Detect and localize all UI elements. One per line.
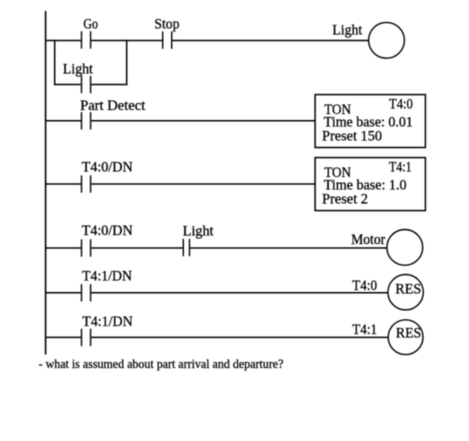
contact T4:0/DN (rung 3) [82,160,134,193]
left power rail [45,11,47,355]
svg-text:Light: Light [332,23,362,39]
svg-text:Light: Light [183,223,214,239]
svg-text:Preset 150: Preset 150 [322,129,382,145]
svg-text:T4:0/DN: T4:0/DN [82,223,134,239]
svg-text:T4:1/DN: T4:1/DN [82,314,133,330]
svg-text:T4:1: T4:1 [389,160,412,176]
wire: contact Go to contact Stop [91,40,162,42]
timer TON T4:0 box [315,95,425,148]
rung 5 wire: rail to contact T4:1/DN [45,292,81,294]
wire: contact to coil RES T4:0 [91,292,388,294]
svg-text:- what is assumed about part a: - what is assumed about part arrival and… [39,356,284,371]
svg-text:T4:0/DN: T4:0/DN [82,160,134,176]
svg-text:Light: Light [63,61,93,77]
contact Go [82,17,99,49]
svg-text:Stop: Stop [154,17,179,33]
coil RES T4:0 [352,275,423,310]
svg-text:T4:1: T4:1 [352,322,377,338]
svg-text:RES: RES [395,282,421,298]
wire: contact to coil RES T4:1 [91,336,388,338]
wire: contact Light to coil Motor [190,247,387,249]
rung 4 wire: rail to contact T4:0/DN [45,247,81,249]
svg-text:T4:1/DN: T4:1/DN [82,268,132,284]
wire: Part Detect to timer T4:0 box [91,120,315,122]
rung 2 wire: rail to contact Part Detect [45,120,81,122]
wire: T4:0/DN to contact Light [91,247,182,249]
svg-text:T4:0: T4:0 [389,97,413,113]
svg-text:T4:0: T4:0 [352,278,377,294]
wire: contact to timer T4:1 box [91,183,315,185]
contact Light (branch) [63,61,93,93]
contact Light (rung 4) [183,223,214,256]
rung 1 wire: rail to contact Go [45,40,81,42]
coil RES T4:1 [352,320,423,355]
wire: contact Stop to coil Light [172,40,368,42]
coil Motor [351,230,423,266]
rung 6 wire: rail to contact T4:1/DN [45,336,81,338]
contact Part Detect [80,98,145,129]
svg-text:Preset 2: Preset 2 [322,192,368,208]
svg-text:RES: RES [396,326,421,342]
contact T4:1/DN (rung 6) [82,314,134,346]
coil Light [332,22,404,58]
contact T4:1/DN (rung 5) [82,268,133,301]
timer TON T4:1 box [315,158,425,211]
contact Stop [154,17,179,49]
rung 3 wire: rail to contact T4:0/DN [45,183,81,185]
contact T4:0/DN (rung 4) [82,223,134,257]
svg-text:Go: Go [83,17,98,33]
parallel branch wire (around Go) [54,40,127,85]
svg-text:Motor: Motor [351,232,385,248]
svg-text:Part Detect: Part Detect [80,98,145,114]
